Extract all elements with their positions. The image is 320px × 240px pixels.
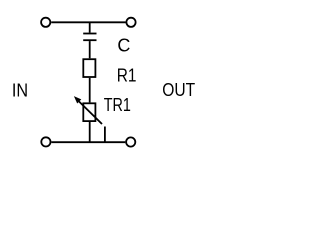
wire stub top rail to capacitor (89, 22, 91, 32)
svg-text:TR1: TR1 (104, 95, 131, 115)
terminal top-right (OUT) (126, 18, 135, 27)
terminal bottom-left (41, 137, 50, 146)
svg-text:C: C (117, 35, 130, 55)
thermistor TR1 (74, 96, 102, 124)
svg-text:IN: IN (12, 80, 28, 100)
terminal bottom-right (126, 137, 135, 146)
wire resistor to thermistor (89, 78, 91, 103)
svg-text:R1: R1 (117, 65, 137, 85)
svg-text:OUT: OUT (162, 80, 195, 100)
wire capacitor to resistor (89, 41, 91, 58)
wire wiper to bottom rail (104, 127, 106, 143)
terminal top-left (IN) (41, 18, 50, 27)
wire top rail (51, 21, 125, 23)
wire thermistor to bottom rail (89, 122, 91, 142)
capacitor C (83, 34, 96, 41)
resistor R1 (83, 59, 95, 77)
wire bottom rail (51, 141, 125, 143)
